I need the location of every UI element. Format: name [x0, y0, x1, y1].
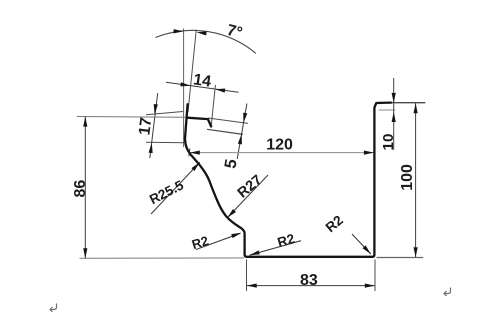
svg-text:R27: R27 [235, 172, 266, 201]
svg-text:86: 86 [72, 180, 89, 198]
svg-text:83: 83 [300, 272, 318, 289]
7-degree tilted construction line [188, 30, 196, 113]
svg-text:10: 10 [380, 134, 397, 151]
arrow 83 left [247, 284, 257, 288]
pilcrow mark left [50, 304, 57, 313]
arrow 10 top [392, 93, 396, 103]
arrow 120 left [190, 151, 200, 155]
extension line b (hook lower edge extended) [207, 129, 243, 134]
svg-text:14: 14 [192, 71, 212, 90]
arrow 86 bottom [83, 248, 87, 258]
top edge extension (100 top) [376, 102, 425, 104]
arrow 5 top [241, 113, 247, 124]
leader R27 [227, 175, 268, 218]
arc arrow right [196, 30, 206, 35]
arrow 17 top [153, 104, 158, 114]
dim line 100 [415, 103, 417, 257]
svg-text:120: 120 [266, 137, 293, 154]
extension line a (hook top edge extended) [208, 118, 248, 123]
svg-text:R25.5: R25.5 [147, 177, 186, 207]
svg-text:17: 17 [136, 116, 155, 136]
leader R2 middle [250, 241, 301, 256]
arrow 83 right [365, 284, 375, 288]
dim line 120 [189, 152, 374, 154]
leader R2 right [352, 234, 371, 254]
arrow 14 right [215, 87, 225, 93]
extension line 86 bottom (baseline) [80, 257, 245, 259]
leader R2 left [196, 233, 240, 249]
dim line 5 [237, 104, 247, 160]
extension line 14 right [211, 85, 215, 126]
dim line 86 [84, 116, 86, 258]
arrow 10 bottom [392, 112, 396, 122]
arrow 14 left [180, 82, 190, 88]
angle dimension arc 7deg [156, 30, 257, 53]
svg-text:R2: R2 [276, 231, 297, 250]
extension line 17 top [146, 112, 183, 115]
extension line 83 right [374, 260, 376, 292]
svg-text:R2: R2 [190, 233, 210, 252]
arc arrow left [174, 29, 184, 33]
svg-text:5: 5 [221, 158, 240, 170]
arrow 120 right [364, 151, 374, 155]
tick line for 10 [379, 109, 396, 111]
extension line 17 bottom [146, 141, 184, 144]
arrow 17 bottom [149, 143, 154, 153]
profile hook tab [187, 118, 211, 127]
dim line 10 [393, 78, 395, 150]
svg-text:100: 100 [399, 164, 416, 191]
arrow 86 top [83, 117, 87, 127]
arrow 100 top [414, 103, 418, 113]
bottom edge extension (100 bottom) [377, 257, 424, 259]
dim line 14 [166, 82, 239, 92]
arrow 100 bottom [414, 247, 418, 257]
svg-text:7°: 7° [225, 22, 244, 42]
arrow 5 bottom [238, 134, 244, 145]
pilcrow mark right [444, 288, 451, 297]
tick at 120 left [189, 149, 190, 157]
dim line 83 [247, 285, 375, 287]
extension line 83 left [246, 260, 248, 292]
dim line 17 [150, 93, 158, 158]
profile outline main sheet [185, 103, 391, 257]
extension line 86 top [77, 116, 187, 119]
vertical reference line (angle vertex construction) [183, 29, 185, 148]
leader R25.5 [151, 162, 200, 214]
svg-text:R2: R2 [323, 212, 346, 235]
